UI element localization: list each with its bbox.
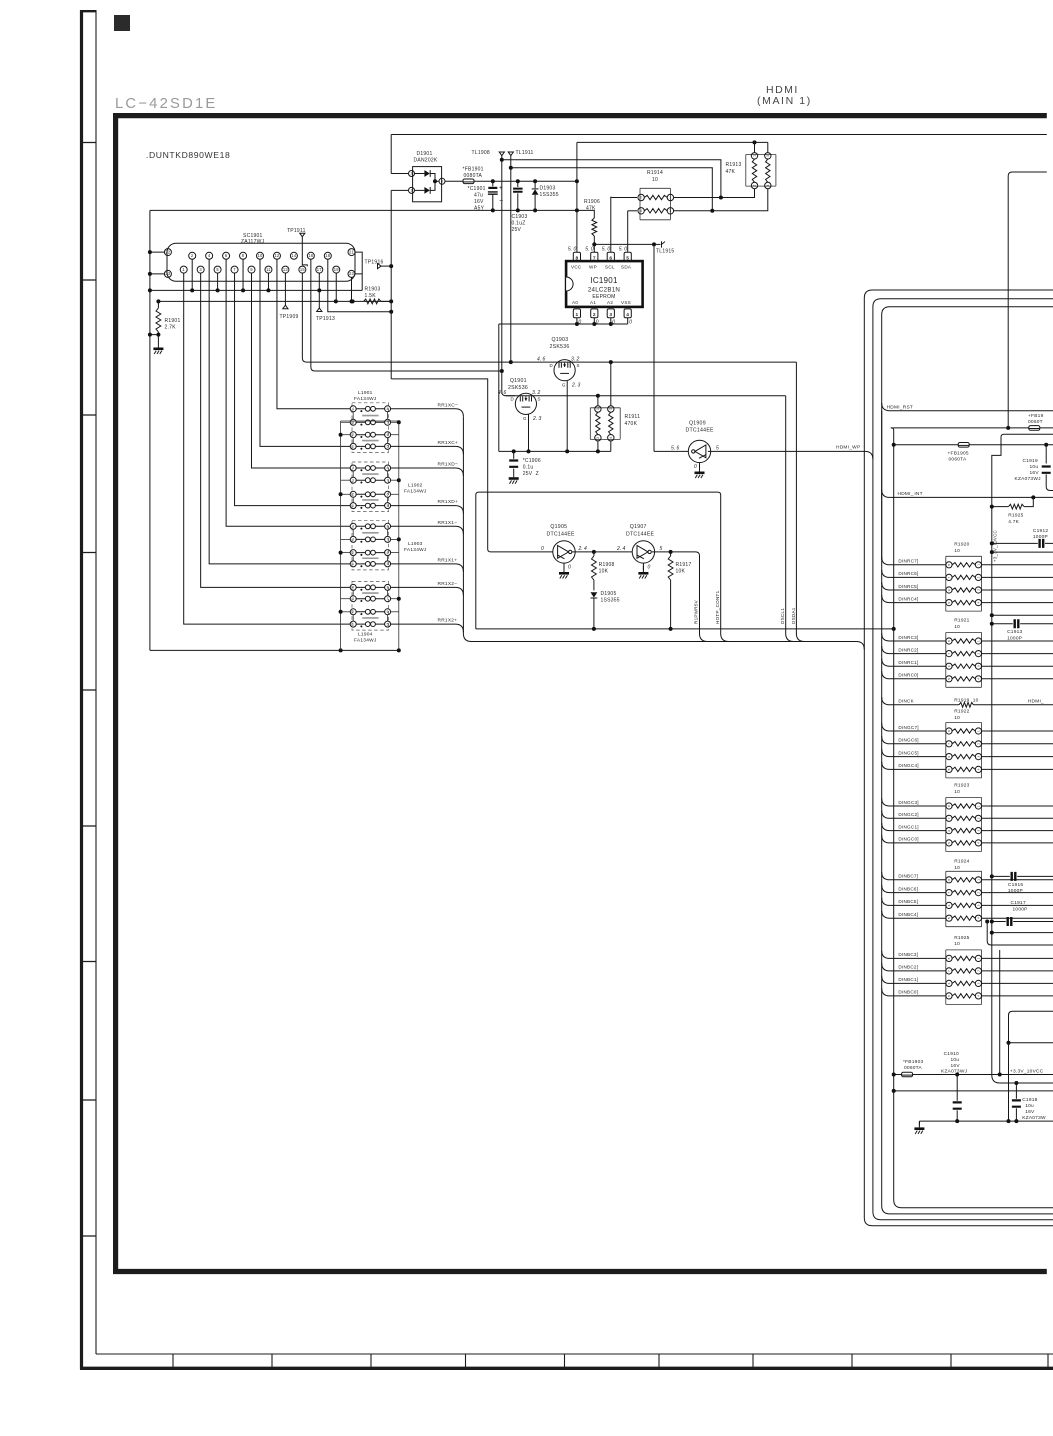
SCL corner down DSDA1 — [795, 362, 797, 633]
svg-text:6: 6 — [387, 493, 389, 497]
HOTP net from D1901 pin1 column — [391, 379, 552, 552]
svg-text:*FB1903: *FB1903 — [903, 1059, 923, 1065]
svg-text:KZA073WJ: KZA073WJ — [941, 1069, 968, 1075]
capacitor C1916 1000P — [990, 874, 994, 878]
svg-text:RR1X1−: RR1X1− — [438, 520, 458, 526]
svg-text:10: 10 — [652, 177, 658, 183]
connector shield pin 21 — [348, 249, 355, 256]
connector SC1901 top row pins 2-18 — [189, 252, 196, 259]
svg-text:2: 2 — [977, 892, 981, 894]
signal DINGC7&#93; — [882, 723, 946, 731]
ground wire y=1121.1 — [919, 1120, 1053, 1122]
svg-text:DINGC2]: DINGC2] — [898, 812, 918, 817]
svg-text:470K: 470K — [625, 421, 638, 427]
capacitor C1901 47u 16V electrolytic — [492, 181, 494, 210]
wire pin15 SCL drop — [302, 273, 509, 362]
svg-text:10: 10 — [954, 548, 960, 554]
svg-text:10: 10 — [954, 715, 960, 721]
svg-text:S: S — [577, 363, 580, 368]
svg-text:0.1uZ: 0.1uZ — [512, 221, 526, 227]
svg-text:4: 4 — [977, 678, 981, 680]
SDA drop from TL1908 junction — [502, 371, 515, 396]
TL1911 SCL column — [510, 156, 512, 363]
svg-text:C1913: C1913 — [1007, 629, 1022, 635]
svg-text:2: 2 — [640, 196, 642, 200]
connector shield pin 22 — [164, 249, 171, 256]
svg-text:1: 1 — [977, 730, 981, 732]
svg-text:D1905: D1905 — [601, 591, 617, 597]
choke shield row connections — [341, 421, 351, 423]
IC1901 pin5 SDA lead — [627, 211, 629, 253]
IC1901 bottom pins ground wire — [499, 318, 628, 452]
svg-text:7: 7 — [593, 255, 596, 261]
svg-text:1SS355: 1SS355 — [540, 192, 559, 198]
test point TL1911 — [508, 152, 513, 156]
svg-text:C1917: C1917 — [1011, 900, 1026, 906]
svg-text:C1918: C1918 — [1022, 1097, 1037, 1103]
svg-text:15: 15 — [300, 267, 306, 272]
svg-text:3: 3 — [977, 982, 981, 984]
signal DINBC4&#93; — [882, 911, 946, 919]
svg-text:7: 7 — [387, 597, 389, 601]
test point TP1911 above connector — [300, 233, 305, 237]
ground loop vertical left — [150, 649, 399, 651]
wire pin16 SDA drop — [311, 259, 501, 371]
svg-text:6: 6 — [387, 433, 389, 437]
svg-text:2: 2 — [977, 653, 981, 655]
MOSFET Q1901 2SK536 — [515, 393, 536, 414]
svg-text:SCL: SCL — [605, 265, 615, 270]
svg-text:0.1u: 0.1u — [523, 465, 534, 471]
svg-text:3: 3 — [352, 597, 354, 601]
svg-text:6: 6 — [947, 830, 951, 832]
svg-text:DINBC5]: DINBC5] — [898, 899, 918, 904]
svg-text:0: 0 — [568, 565, 571, 571]
IC1901 pin6 SCL lead — [610, 197, 612, 253]
+5V top distribution wire — [391, 134, 1047, 136]
bus C gap segment above RST — [881, 411, 883, 560]
svg-text:6: 6 — [947, 665, 951, 667]
svg-text:1: 1 — [575, 312, 578, 318]
svg-text:Q1905: Q1905 — [550, 524, 567, 530]
signal DINRC0&#93; — [882, 671, 946, 679]
svg-text:(MAIN 1): (MAIN 1) — [757, 95, 812, 107]
DIN hook bus vertical x=893.7 — [894, 430, 1053, 1208]
svg-text:TL1915: TL1915 — [656, 249, 674, 255]
test point TP1909 on pin 13 — [284, 273, 286, 306]
svg-text:5: 5 — [716, 445, 719, 451]
svg-text:TP1911: TP1911 — [287, 228, 306, 234]
svg-text:D1901: D1901 — [417, 151, 433, 157]
wire shield 23 right drop — [351, 277, 353, 301]
svg-text:2SK536: 2SK536 — [550, 344, 570, 350]
svg-text:6: 6 — [947, 589, 951, 591]
svg-text:10: 10 — [257, 253, 263, 258]
svg-text:2: 2 — [596, 437, 600, 439]
+3.3V IOVCC vertical pair — [1001, 434, 1053, 437]
svg-text:RR1X2+: RR1X2+ — [438, 618, 458, 624]
svg-text:1: 1 — [669, 196, 671, 200]
svg-text:3: 3 — [977, 665, 981, 667]
bus line A lower run — [864, 650, 1053, 1226]
svg-text:6: 6 — [947, 756, 951, 758]
svg-text:1000P: 1000P — [1033, 534, 1048, 540]
svg-text:VCC: VCC — [571, 265, 582, 270]
signal DINGC2&#93; — [882, 811, 946, 819]
svg-text:+3_3V_IOVCC: +3_3V_IOVCC — [992, 530, 997, 562]
svg-text:R1925: R1925 — [954, 935, 969, 941]
svg-text:0: 0 — [648, 565, 651, 571]
svg-text:FA134WJ: FA134WJ — [354, 396, 377, 402]
svg-text:3: 3 — [352, 538, 354, 542]
svg-text:S: S — [538, 397, 541, 402]
svg-text:47K: 47K — [726, 169, 736, 175]
svg-text:SDA: SDA — [621, 265, 632, 270]
svg-text:2: 2 — [352, 433, 354, 437]
svg-text:7: 7 — [387, 538, 389, 542]
svg-text:DINGC6]: DINGC6] — [898, 738, 918, 743]
svg-text:FA134WJ: FA134WJ — [404, 547, 427, 553]
svg-text:12: 12 — [274, 253, 280, 258]
svg-text:4: 4 — [626, 312, 629, 318]
svg-text:0060TA: 0060TA — [904, 1065, 922, 1071]
svg-text:13: 13 — [283, 267, 289, 272]
3.3V rail for level shifters — [499, 450, 611, 452]
svg-text:2: 2 — [753, 184, 757, 186]
svg-text:3: 3 — [977, 904, 981, 906]
R1914 pin1 wire to R1913 — [674, 189, 755, 198]
svg-text:A2: A2 — [607, 300, 613, 305]
svg-text:1: 1 — [352, 562, 354, 566]
svg-text:16V: 16V — [1030, 470, 1040, 476]
WP drop to Q1909 — [653, 244, 655, 451]
svg-text:Q1901: Q1901 — [510, 378, 527, 384]
ground below R1901 — [157, 342, 159, 348]
svg-text:0060TA: 0060TA — [949, 457, 967, 463]
svg-text:3: 3 — [977, 756, 981, 758]
svg-text:5: 5 — [387, 445, 389, 449]
svg-text:DINBC7]: DINBC7] — [898, 874, 918, 879]
svg-text:L1902: L1902 — [408, 482, 423, 488]
svg-text:1: 1 — [977, 640, 981, 642]
svg-text:10u: 10u — [1025, 1103, 1034, 1109]
bus line B top corner — [873, 299, 1053, 460]
SCL test rail to R1913 — [511, 168, 713, 211]
svg-text:5. 0: 5. 0 — [619, 247, 628, 253]
resistor network — [946, 723, 982, 778]
R1PWR5V hook to bus — [700, 634, 708, 642]
ground below C1906 — [513, 471, 515, 477]
svg-text:24LC2B1N: 24LC2B1N — [588, 287, 620, 294]
HPD wire y=301 with corner to L1904 — [158, 300, 391, 302]
svg-text:L1903: L1903 — [408, 541, 423, 547]
connector SC1901 bottom row pins 1-19 — [180, 266, 187, 273]
WP bus lower segment — [872, 458, 874, 460]
wire y=1090.9 — [894, 1090, 1053, 1092]
svg-text:4: 4 — [352, 466, 354, 470]
svg-text:DINRC2]: DINRC2] — [898, 647, 918, 652]
svg-text:17: 17 — [317, 267, 323, 272]
svg-text:*FB1901: *FB1901 — [463, 167, 484, 173]
DSCL1 hook to bus — [786, 634, 794, 642]
signal DINRC2&#93; — [882, 646, 946, 654]
svg-text:1: 1 — [410, 189, 412, 193]
svg-text:5: 5 — [947, 678, 951, 680]
svg-text:16: 16 — [308, 253, 314, 258]
+5V column x=1046 from top wire — [1045, 445, 1047, 464]
capacitor C1919 10u 16V KZA073WJ — [1042, 467, 1051, 473]
stub wire y=932.6 — [992, 932, 1053, 934]
svg-text:DINBC0]: DINBC0] — [898, 990, 918, 995]
svg-text:8: 8 — [387, 525, 389, 529]
ground return bus y=210.4 — [150, 209, 577, 211]
capacitor C1913 1000P — [990, 622, 994, 626]
svg-text:HDMI_WP: HDMI_WP — [836, 445, 860, 451]
ground bus below connector — [150, 289, 362, 291]
stub corner y=1011.2 — [1009, 1011, 1053, 1121]
svg-text:1SS355: 1SS355 — [601, 598, 620, 604]
svg-text:4: 4 — [352, 525, 354, 529]
svg-text:KZA073W: KZA073W — [1022, 1115, 1046, 1121]
svg-text:47K: 47K — [586, 205, 596, 211]
IC1901 pin7 WP lead — [593, 244, 595, 252]
svg-text:C1912: C1912 — [1033, 528, 1048, 534]
svg-text:2.7K: 2.7K — [165, 325, 177, 331]
svg-text:10: 10 — [954, 624, 960, 630]
svg-text:R1906: R1906 — [584, 199, 600, 205]
signal DINBC1&#93; — [882, 976, 946, 984]
svg-text:19: 19 — [334, 267, 340, 272]
svg-text:5. 6: 5. 6 — [671, 445, 680, 451]
capacitor C1918 10u 16V — [1015, 1083, 1017, 1099]
stub wire y=1042.7 — [1007, 1041, 1011, 1045]
svg-text:4. 6: 4. 6 — [498, 390, 507, 396]
svg-text:R1920: R1920 — [954, 542, 969, 548]
svg-text:3. 2: 3. 2 — [571, 356, 580, 362]
svg-text:TP1916: TP1916 — [365, 260, 384, 266]
bottom ruler — [96, 1353, 1053, 1355]
svg-text:1: 1 — [352, 504, 354, 508]
svg-text:LC−42SD1E: LC−42SD1E — [115, 96, 217, 112]
resistor network R1923 10 — [946, 798, 982, 852]
ferrite bead FB1905 0060TA — [958, 443, 969, 448]
svg-text:−: − — [499, 198, 503, 205]
svg-text:5: 5 — [387, 504, 389, 508]
svg-text:*C1901: *C1901 — [468, 186, 486, 192]
svg-text:IC1901: IC1901 — [590, 276, 618, 285]
svg-text:G: G — [562, 383, 566, 388]
wire D1901 pin3 to FB1901 — [445, 180, 463, 182]
IC1901 pin8 VCC lead — [576, 142, 578, 252]
resistor network R1921 10 — [946, 633, 982, 688]
svg-text:4: 4 — [352, 407, 354, 411]
svg-text:4: 4 — [977, 842, 981, 844]
choke signal row stubs left — [349, 408, 351, 410]
svg-text:DTC144EE: DTC144EE — [547, 532, 576, 538]
svg-text:16V: 16V — [474, 199, 484, 205]
svg-text:DTC144EE: DTC144EE — [626, 532, 655, 538]
resistor R1925 4.7K INT pullup — [990, 505, 994, 509]
VCC rail to R1913 tops — [577, 141, 768, 143]
svg-text:8: 8 — [387, 466, 389, 470]
svg-text:18: 18 — [325, 253, 331, 258]
svg-text:C1903: C1903 — [512, 214, 528, 220]
svg-text:5: 5 — [660, 546, 663, 552]
svg-text:3: 3 — [352, 421, 354, 425]
bus line C top corner — [882, 307, 1053, 560]
svg-text:3: 3 — [352, 478, 354, 482]
svg-text:DINRC1]: DINRC1] — [898, 660, 918, 665]
diode D1903 1SS355 zener — [534, 181, 536, 210]
Q1909 emitter ground — [699, 463, 701, 470]
svg-text:R1901: R1901 — [165, 318, 181, 324]
svg-text:6: 6 — [387, 551, 389, 555]
svg-text:4: 4 — [609, 437, 613, 439]
HDMI_RST hook and wire — [882, 403, 1053, 411]
svg-text:DINRC7]: DINRC7] — [898, 559, 918, 564]
svg-text:RR1XC−: RR1XC− — [438, 402, 459, 408]
svg-text:Q1907: Q1907 — [630, 524, 647, 530]
svg-text:10: 10 — [954, 941, 960, 947]
svg-text:7: 7 — [947, 817, 951, 819]
bus line C lower run — [882, 560, 1053, 1214]
svg-text:22: 22 — [165, 249, 171, 254]
signal DINRC3&#93; — [882, 633, 946, 641]
svg-text:2: 2 — [410, 172, 412, 176]
SCL corner to R1914 pin2 — [611, 196, 637, 199]
svg-text:5: 5 — [947, 995, 951, 997]
svg-text:2: 2 — [352, 551, 354, 555]
R1911 pin3 lead up to SCL — [610, 362, 612, 406]
svg-text:R1911: R1911 — [625, 414, 641, 420]
svg-text:Q1903: Q1903 — [552, 337, 569, 343]
corner registration square — [114, 15, 130, 31]
svg-text:R1924: R1924 — [954, 859, 969, 865]
resistor R1908 10K — [593, 552, 595, 556]
svg-text:5: 5 — [947, 602, 951, 604]
svg-text:8: 8 — [387, 586, 389, 590]
R1911 bottom leads to 3.3V rail — [598, 441, 611, 452]
IC1901 top pin boxes 8 7 6 5 — [573, 252, 580, 261]
svg-text:1: 1 — [977, 957, 981, 959]
svg-text:DINRC0]: DINRC0] — [898, 673, 918, 678]
bus line B lower run — [873, 459, 1053, 1219]
svg-text:FA134WJ: FA134WJ — [404, 488, 427, 494]
svg-text:4: 4 — [352, 586, 354, 590]
svg-text:8: 8 — [947, 957, 951, 959]
SDA corner to R1914 pin4 — [628, 210, 637, 212]
svg-text:5. 0: 5. 0 — [602, 247, 611, 253]
wire Q1907 output to R1PWR5V — [652, 552, 700, 634]
svg-text:7: 7 — [387, 421, 389, 425]
svg-text:2: 2 — [977, 576, 981, 578]
Q1909 output HDMI_WP wire — [708, 451, 873, 459]
svg-text:TP1913: TP1913 — [316, 316, 335, 322]
svg-text:D1903: D1903 — [540, 186, 556, 192]
svg-text:4: 4 — [977, 768, 981, 770]
svg-text:0: 0 — [612, 320, 615, 326]
common-mode choke L1902 FA134WJ — [352, 462, 389, 512]
svg-text:WP: WP — [589, 265, 597, 270]
resistor network R1924 10 — [946, 871, 982, 926]
svg-text:2: 2 — [593, 312, 596, 318]
svg-text:4: 4 — [640, 209, 642, 213]
HPD ground rail to right block — [476, 628, 894, 630]
svg-text:4: 4 — [766, 184, 770, 186]
svg-text:A1: A1 — [590, 300, 596, 305]
svg-text:4.7K: 4.7K — [1008, 519, 1019, 525]
svg-text:R1903: R1903 — [365, 287, 381, 293]
svg-text:FA134WJ: FA134WJ — [354, 638, 377, 644]
svg-text:L1901: L1901 — [358, 390, 373, 396]
resistor R1903 1.5K — [364, 299, 382, 304]
Q1907 emitter ground — [642, 563, 644, 570]
svg-text:5: 5 — [947, 917, 951, 919]
svg-text:DINBC1]: DINBC1] — [898, 977, 918, 982]
svg-text:4: 4 — [977, 917, 981, 919]
svg-text:HOTP_CONT1: HOTP_CONT1 — [715, 590, 720, 624]
svg-text:5: 5 — [947, 768, 951, 770]
SDA corner down DSCL1 — [785, 396, 787, 634]
svg-text:RR1XD−: RR1XD− — [438, 462, 459, 468]
+5V rail from FB1901 — [474, 180, 577, 182]
svg-text:DINBC3]: DINBC3] — [898, 952, 918, 957]
svg-text:2. 3: 2. 3 — [571, 383, 581, 389]
svg-text:8: 8 — [387, 407, 389, 411]
svg-text:0: 0 — [629, 320, 632, 326]
svg-text:DINGC4]: DINGC4] — [898, 763, 918, 768]
svg-text:1: 1 — [352, 445, 354, 449]
svg-text:DINCK: DINCK — [898, 699, 914, 704]
svg-text:2: 2 — [352, 610, 354, 614]
svg-text:4: 4 — [977, 602, 981, 604]
svg-text:0080TA: 0080TA — [464, 173, 483, 179]
page fold strip left — [80, 10, 83, 1369]
svg-text:23: 23 — [165, 271, 171, 276]
test point TL1915 — [654, 243, 661, 245]
svg-text:14: 14 — [291, 253, 297, 258]
connector shield pin 23 right — [348, 270, 355, 277]
HOTP box path to bundle — [476, 492, 721, 633]
svg-text:0: 0 — [694, 464, 697, 470]
wire Q1905 output to Q1907 — [572, 551, 632, 553]
svg-text:1: 1 — [753, 155, 757, 157]
svg-text:0: 0 — [596, 320, 599, 326]
svg-text:R1921: R1921 — [954, 618, 969, 624]
signal DINCK with R1919 10 — [882, 697, 959, 705]
svg-text:0: 0 — [541, 546, 544, 552]
svg-text:+: + — [499, 185, 503, 192]
signal DINGC5&#93; — [882, 749, 946, 757]
wire pin18 +5V to D1901 column — [328, 259, 391, 312]
svg-text:10u: 10u — [951, 1057, 960, 1063]
svg-text:10: 10 — [954, 865, 960, 871]
capacitor C1912 1000P — [990, 541, 994, 545]
svg-text:DINRC4]: DINRC4] — [898, 596, 918, 601]
svg-text:6: 6 — [947, 982, 951, 984]
svg-text:+3.3V_10VCC: +3.3V_10VCC — [1010, 1069, 1044, 1075]
svg-text:47u: 47u — [474, 193, 483, 199]
connector shield pin 23 left — [164, 270, 171, 277]
svg-text:D: D — [550, 363, 553, 368]
svg-text:10u: 10u — [1030, 464, 1039, 470]
svg-text:DAN202K: DAN202K — [414, 158, 438, 164]
svg-text:7: 7 — [947, 743, 951, 745]
ferrite bead FB1901 0080TA — [463, 179, 474, 184]
svg-text:1: 1 — [977, 879, 981, 881]
svg-text:DINGC1]: DINGC1] — [898, 824, 918, 829]
svg-text:8: 8 — [947, 805, 951, 807]
